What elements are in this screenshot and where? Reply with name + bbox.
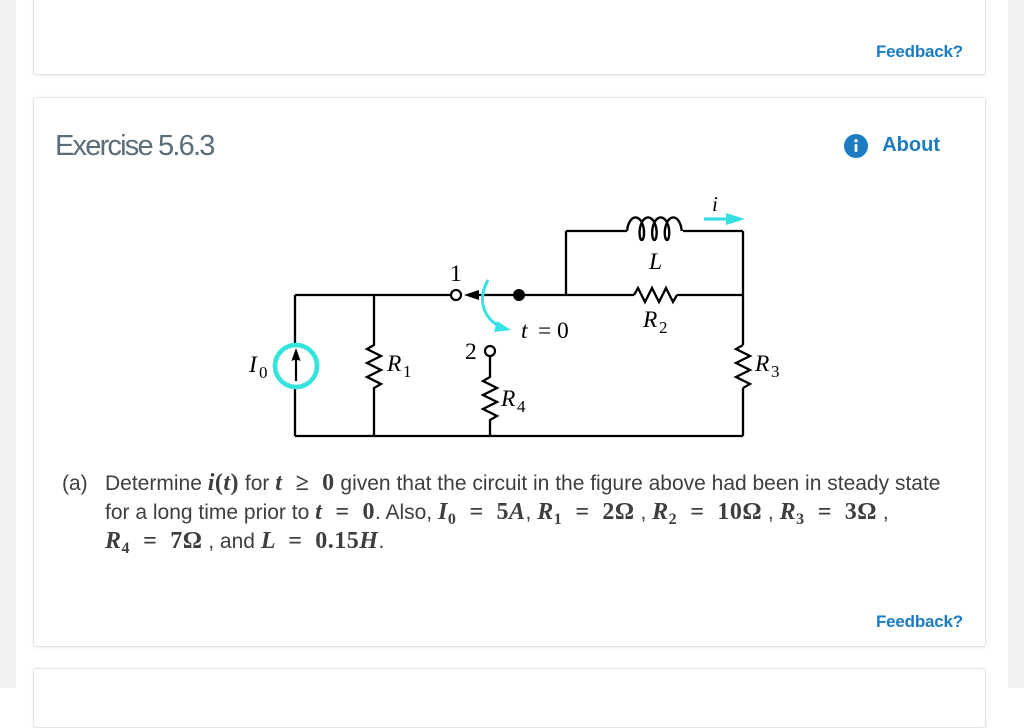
svg-text:R: R <box>500 386 515 412</box>
resistor R3 <box>736 345 750 388</box>
svg-text:0: 0 <box>557 318 569 344</box>
switch arrowhead <box>464 290 479 300</box>
labels <box>248 192 780 416</box>
svg-text:t: t <box>521 318 528 344</box>
svg-text:1: 1 <box>403 362 412 381</box>
svg-text:L: L <box>648 249 662 275</box>
main exercise card <box>33 97 986 647</box>
resistor R4 <box>483 356 497 436</box>
paragraph <box>105 469 950 556</box>
svg-text:2: 2 <box>465 339 477 365</box>
wire right vertical top <box>742 231 744 345</box>
svg-text:=: = <box>538 318 551 344</box>
svg-text:R: R <box>386 351 401 377</box>
node 1 circle <box>451 290 461 300</box>
bottom card <box>33 668 986 728</box>
wire branch up <box>565 231 567 295</box>
svg-text:i: i <box>712 192 718 216</box>
svg-text:I: I <box>248 352 258 378</box>
svg-text:0: 0 <box>259 363 268 382</box>
svg-text:R: R <box>754 351 769 377</box>
inductor L <box>627 217 682 240</box>
wire right vertical bottom <box>742 388 744 436</box>
svg-text:R: R <box>642 307 657 333</box>
svg-text:1: 1 <box>450 261 462 287</box>
wire inductor to corner <box>683 230 743 232</box>
svg-text:2: 2 <box>659 318 668 337</box>
current source I0 circle <box>275 345 317 387</box>
switch arc t=0 <box>482 280 497 325</box>
node dot <box>513 289 525 301</box>
wire R2 to right <box>677 294 743 296</box>
wire branch top left <box>566 230 627 232</box>
top card <box>33 0 986 75</box>
resistor R1 <box>367 295 381 436</box>
wire top rail left <box>295 294 450 296</box>
current source arrow <box>295 358 297 381</box>
resistor R2 <box>634 288 677 302</box>
wire main line right <box>519 294 634 296</box>
svg-text:4: 4 <box>517 397 526 416</box>
left gray gutter <box>0 0 16 688</box>
svg-text:3: 3 <box>771 362 780 381</box>
wire left vertical bottom <box>294 388 296 436</box>
wire left vertical top <box>294 295 296 345</box>
about info icon <box>844 134 868 158</box>
current arrow i <box>704 217 726 220</box>
node 2 circle <box>485 346 495 356</box>
wire bottom rail <box>295 435 743 437</box>
right gray gutter <box>1008 0 1024 688</box>
wire switch stub <box>479 294 519 296</box>
